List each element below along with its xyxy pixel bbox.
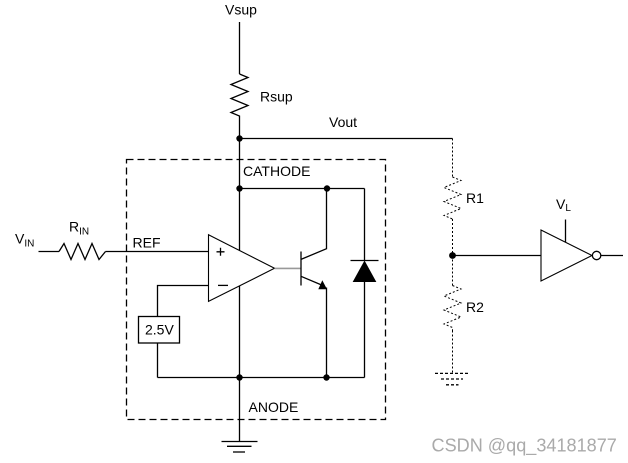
wire Vsup lead	[239, 22, 241, 74]
svg-text:2.5V: 2.5V	[145, 322, 174, 338]
node Vout junction	[236, 135, 242, 141]
node cathode rail left junction	[236, 185, 242, 191]
svg-text:Rsup: Rsup	[260, 89, 293, 105]
resistor R1 (dotted)	[444, 177, 461, 219]
wire diode top lead	[364, 189, 366, 261]
wire top cathode rail	[240, 188, 365, 190]
transistor Q1 emitter with arrow	[301, 276, 323, 285]
wire R1 branch top (dotted)	[452, 139, 454, 178]
ground right (dashed)	[435, 372, 468, 374]
wire divider node to inverter	[453, 255, 542, 257]
inverter bubble	[592, 251, 600, 259]
wire 2.5V bottom lead	[157, 343, 159, 378]
resistor Rsup	[231, 74, 248, 117]
resistor RIN	[59, 244, 106, 260]
node anode rail center junction	[236, 374, 242, 380]
wire VL supply lead	[565, 220, 567, 244]
svg-text:Vout: Vout	[329, 114, 357, 130]
node anode rail emitter junction	[323, 374, 329, 380]
wire R2 top (dotted)	[452, 256, 454, 286]
wire inverter output	[601, 255, 623, 257]
transistor Q1 base bar	[300, 252, 302, 286]
wire inverting input from 2.5V	[158, 286, 209, 317]
wire REF input	[106, 251, 209, 253]
wire R2 bottom (dotted)	[452, 331, 454, 374]
wire cathode vertical (Vout node down through box to ground)	[239, 139, 241, 442]
svg-text:Vsup: Vsup	[225, 2, 257, 18]
wire Vout horizontal	[240, 138, 453, 140]
resistor R2 (dotted)	[444, 286, 461, 331]
svg-text:REF: REF	[133, 235, 161, 251]
wire bottom anode rail	[158, 377, 365, 379]
transistor Q1 collector	[301, 189, 327, 260]
reference 2.5V box	[139, 317, 180, 344]
node divider junction	[449, 252, 456, 259]
svg-text:R1: R1	[466, 190, 484, 206]
svg-text:CSDN @qq_34181877: CSDN @qq_34181877	[432, 436, 617, 457]
svg-text:ANODE: ANODE	[249, 399, 299, 415]
op-amp plus sign	[217, 248, 225, 256]
wire emitter lead down	[326, 288, 328, 378]
node cathode rail collector junction	[324, 185, 330, 191]
IC boundary dashed box	[127, 160, 386, 420]
wire diode bottom lead	[364, 282, 366, 378]
svg-text:CATHODE: CATHODE	[243, 163, 310, 179]
wire R1 to divider node (dotted)	[452, 219, 454, 255]
svg-text:R2: R2	[466, 299, 484, 315]
ground main	[222, 441, 258, 443]
inverter U2	[541, 230, 592, 281]
diode D1	[351, 260, 379, 262]
op-amp minus sign	[218, 284, 228, 286]
wire op-amp output to base (gray)	[275, 267, 302, 269]
wire VIN lead	[39, 251, 60, 253]
op-amp U1	[209, 235, 275, 302]
wire Rsup to Vout node	[239, 117, 241, 139]
